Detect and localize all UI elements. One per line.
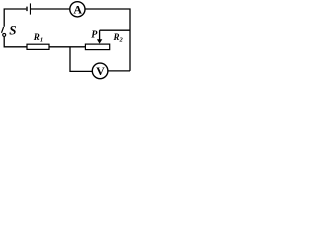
- wire top-left: battery to left rail: [4, 9, 26, 27]
- wire node to voltmeter left: [70, 47, 92, 72]
- battery B1 positive long plate: [30, 3, 31, 14]
- wire ammeter to top-right corner and right rail down: [85, 9, 130, 71]
- rheostat slider arrow shaft: [99, 30, 101, 40]
- switch S pivot contact: [3, 33, 6, 36]
- wire left rail lower: switch to middle rail: [4, 37, 26, 47]
- svg-text:A: A: [73, 3, 82, 17]
- voltmeter V body: [92, 63, 108, 79]
- switch S blade: [2, 27, 4, 33]
- ammeter A body: [70, 2, 85, 17]
- svg-text:P: P: [91, 30, 98, 41]
- svg-text:S: S: [9, 22, 16, 37]
- wire voltmeter right to right rail: [108, 70, 130, 72]
- rheostat slider arrowhead: [97, 39, 102, 43]
- resistor R1 body: [27, 44, 49, 49]
- wire R1 to rheostat with node at x70: [49, 46, 85, 48]
- wire battery to ammeter: [31, 8, 70, 10]
- battery B1 negative short plate: [26, 7, 27, 12]
- rheostat R2 body: [85, 44, 109, 50]
- wire rheostat slider to right rail: [100, 29, 130, 31]
- svg-text:V: V: [96, 64, 105, 78]
